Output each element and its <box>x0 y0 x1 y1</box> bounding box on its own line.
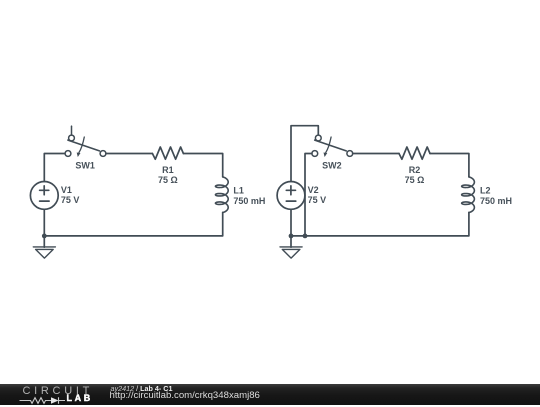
svg-text:75 V: 75 V <box>308 195 327 205</box>
svg-text:75 V: 75 V <box>61 195 80 205</box>
svg-text:75 Ω: 75 Ω <box>158 175 178 185</box>
svg-text:V1: V1 <box>61 185 72 195</box>
svg-text:R2: R2 <box>409 165 421 175</box>
svg-text:L2: L2 <box>480 186 491 196</box>
svg-text:SW2: SW2 <box>322 160 342 170</box>
svg-text:750 mH: 750 mH <box>233 196 265 206</box>
svg-text:750 mH: 750 mH <box>480 196 512 206</box>
svg-text:V2: V2 <box>308 185 319 195</box>
svg-text:SW1: SW1 <box>75 160 95 170</box>
svg-text:L1: L1 <box>233 186 244 196</box>
svg-text:75 Ω: 75 Ω <box>405 175 425 185</box>
svg-text:R1: R1 <box>162 165 174 175</box>
